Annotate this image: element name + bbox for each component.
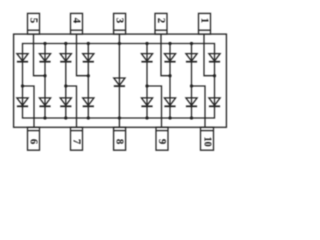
wire pin 4 with jog to column: [77, 34, 89, 76]
pin 2 box: [155, 13, 167, 34]
column wire at x=88.3: [87, 44, 89, 119]
svg-text:4: 4: [71, 18, 83, 24]
junction dot top rail x=119.4: [118, 42, 121, 45]
junction dot bottom rail x=147.0: [145, 116, 148, 119]
diode D17 center TVS: [114, 78, 125, 86]
diode D7 (top, column x=191.5): [186, 54, 197, 62]
wire pin 2 with jog to column: [161, 34, 170, 76]
junction dot bottom rail x=45.0: [43, 116, 46, 119]
diode D4 (top, column x=88.3): [83, 54, 94, 62]
diode D14 (bottom, column x=170.0): [164, 98, 175, 106]
pin 4 box: [71, 13, 83, 34]
junction dot lower jog at column x=22.5: [21, 84, 24, 87]
bottom rail (pin 8 net): [23, 106, 215, 118]
column wire at x=22.5: [22, 54, 24, 107]
pin 5 box: [28, 13, 40, 34]
diode D2 (top, column x=45.0): [39, 54, 50, 62]
junction dot lower jog at column x=147.0: [145, 84, 148, 87]
diode D9 (bottom, column x=22.5): [17, 98, 28, 106]
junction dot bottom rail x=119.4: [118, 116, 121, 119]
pin 8 box: [114, 127, 126, 150]
svg-text:2: 2: [155, 18, 167, 23]
svg-text:3: 3: [114, 18, 126, 24]
diode D8 (top, column x=214.5): [209, 54, 220, 62]
column wire at x=45.0: [44, 44, 46, 119]
junction dot top rail x=65.8: [64, 42, 67, 45]
wire pin 7 with jog to column: [66, 86, 77, 127]
diode D5 (top, column x=147.0): [141, 54, 152, 62]
diode D11 (bottom, column x=65.8): [60, 98, 71, 106]
pin 1 box: [199, 13, 211, 34]
diode D13 (bottom, column x=147.0): [141, 98, 152, 106]
junction dot top rail x=45.0: [43, 42, 46, 45]
junction dot top rail x=191.5: [190, 42, 193, 45]
junction dot lower jog at column x=65.8: [64, 84, 67, 87]
svg-text:5: 5: [28, 18, 40, 23]
wire pin 1 with jog to column: [204, 34, 215, 76]
wire pin 10 with jog to column: [192, 86, 206, 127]
junction dot top rail x=147.0: [145, 42, 148, 45]
junction dot bottom rail x=191.5: [190, 116, 193, 119]
diode D16 (bottom, column x=214.5): [209, 98, 220, 106]
junction dot upper jog at column x=88.3: [87, 74, 90, 77]
junction dot upper jog at column x=170.0: [168, 74, 171, 77]
svg-text:9: 9: [156, 139, 168, 145]
junction dot top rail x=170.0: [168, 42, 171, 45]
center wire pin 3 to pin 8: [118, 34, 120, 127]
junction dot bottom rail x=88.3: [87, 116, 90, 119]
junction dot bottom rail x=65.8: [64, 116, 67, 119]
junction dot lower jog at column x=191.5: [190, 84, 193, 87]
diode D3 (top, column x=65.8): [60, 54, 71, 62]
junction dot upper jog at column x=214.5: [213, 74, 216, 77]
svg-text:8: 8: [114, 139, 126, 145]
pin 7 box: [71, 127, 83, 150]
pin 10 box: [201, 127, 214, 150]
pin 3 box: [114, 13, 126, 34]
column wire at x=214.5: [214, 54, 216, 107]
column wire at x=147.0: [146, 44, 148, 119]
junction dot upper jog at column x=45.0: [43, 74, 46, 77]
svg-text:7: 7: [71, 139, 83, 145]
diode D12 (bottom, column x=88.3): [83, 98, 94, 106]
diode D10 (bottom, column x=45.0): [39, 98, 50, 106]
diode D6 (top, column x=170.0): [164, 54, 175, 62]
column wire at x=191.5: [191, 44, 193, 119]
diode D15 (bottom, column x=191.5): [186, 98, 197, 106]
svg-text:6: 6: [28, 139, 40, 145]
pin 6 box: [28, 127, 40, 150]
column wire at x=65.8: [65, 44, 67, 119]
wire pin 6 with jog to column: [23, 86, 35, 127]
junction dot bottom rail x=170.0: [168, 116, 171, 119]
svg-text:10: 10: [202, 137, 213, 147]
junction dot top rail x=88.3: [87, 42, 90, 45]
wire pin 5 with jog to column: [34, 34, 46, 76]
column wire at x=170.0: [169, 44, 171, 119]
diode D1 (top, column x=22.5): [17, 54, 28, 62]
wire pin 9 with jog to column: [147, 86, 162, 127]
top rail (pin 3 net): [23, 44, 215, 54]
IC body outline: [14, 34, 227, 127]
svg-text:1: 1: [199, 18, 211, 23]
pin 9 box: [156, 127, 168, 150]
